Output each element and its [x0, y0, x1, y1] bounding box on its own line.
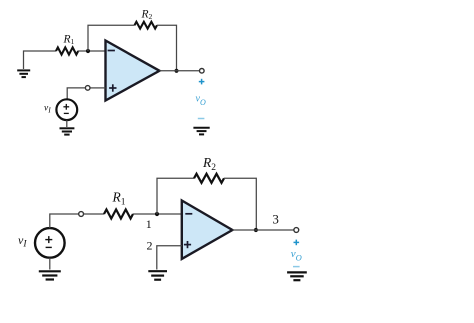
output terminal (open circle) [200, 69, 205, 74]
node at inverting input (junction dot) [86, 49, 90, 53]
ground (bottom output reference) [287, 272, 307, 280]
output wire [160, 70, 200, 72]
wire from terminal to source vI [67, 88, 85, 100]
node at output (junction dot) [174, 69, 178, 73]
node 2 (label) + wire from non-inverting input to ground [147, 239, 182, 270]
plus sign (bottom output, cyan) [294, 240, 300, 246]
ground (top-left) [17, 70, 30, 77]
input terminal (open circle, bottom) [79, 212, 84, 217]
wire from source top to input terminal [50, 214, 79, 228]
ground (top output reference) [193, 128, 209, 135]
op-amp (bottom circuit) [182, 201, 233, 259]
wire feedback right segment down to output (bottom) [224, 178, 256, 230]
wire from R1 to op-amp inverting input [78, 50, 106, 52]
ground (below top source) [60, 128, 75, 134]
ground (below bottom source) [39, 271, 61, 279]
op-amp (top circuit) [106, 41, 160, 101]
wire from terminal to R1 [84, 213, 105, 215]
minus sign (bottom output, cyan) [293, 266, 300, 268]
wire feedback left segment (bottom) [157, 178, 194, 214]
resistor R2 (bottom) [194, 155, 224, 183]
wire feedback right segment down to output [157, 25, 177, 71]
voltage source vI (top) [44, 99, 77, 120]
voltage source vI (bottom) [18, 228, 65, 258]
wire from left ground up to R1 [24, 51, 57, 69]
svg-text:1: 1 [146, 217, 152, 231]
ground (node 2) [148, 271, 167, 280]
output wire (bottom) + node 3 label [232, 211, 294, 230]
wire from source to ground (bottom) [49, 258, 51, 270]
input terminal (open circle, top) [85, 86, 90, 91]
svg-text:2: 2 [147, 239, 153, 253]
node 1 (junction dot + label) [146, 212, 159, 231]
resistor R1 (top) [56, 34, 78, 55]
wire from R1 to inverting input [133, 213, 182, 215]
plus sign (output, cyan) [199, 79, 205, 85]
resistor R2 (top) [135, 8, 157, 28]
svg-text:3: 3 [272, 211, 279, 226]
wire from source to ground [66, 120, 68, 127]
resistor R1 (bottom) [104, 190, 133, 219]
node at output (junction dot, bottom) [254, 228, 258, 232]
output terminal (open circle, bottom) [294, 228, 299, 233]
minus sign (output, cyan) [198, 118, 205, 120]
svg-text:vI: vI [44, 103, 51, 114]
wire from non-inverting input to terminal [90, 87, 106, 89]
wire feedback left segment [88, 25, 135, 51]
